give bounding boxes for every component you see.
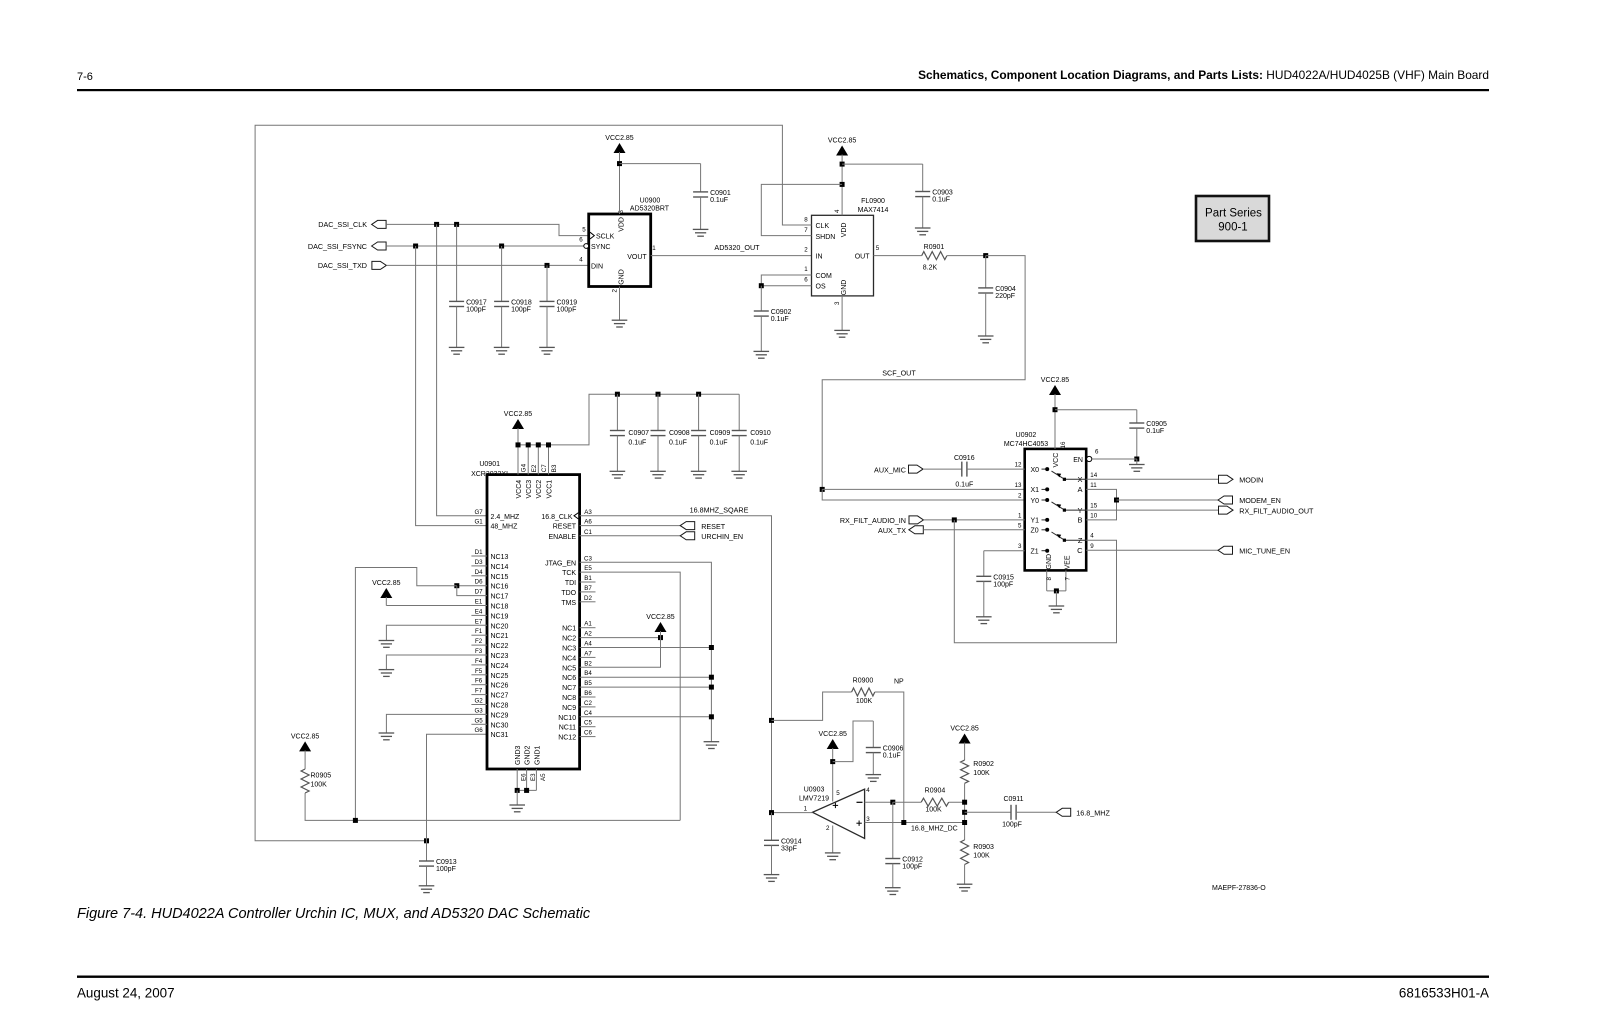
svg-text:VCC2.85: VCC2.85 (504, 411, 533, 418)
node junction DAC_SSI_CLK / G7 drop (434, 222, 439, 227)
svg-text:C3: C3 (584, 555, 592, 562)
node junction C0913 (424, 838, 429, 843)
svg-text:100K: 100K (973, 853, 990, 860)
svg-text:C: C (1077, 546, 1083, 555)
svg-text:C0906: C0906 (883, 746, 904, 753)
resistor R0904 100K (921, 798, 949, 806)
node junction U0902 VCC / C0905 (1053, 407, 1058, 412)
svg-text:B1: B1 (584, 575, 592, 582)
svg-text:F3: F3 (475, 648, 483, 655)
node junction C0905 / EN / ground (1134, 457, 1139, 462)
ground C0915 (976, 617, 992, 624)
capacitor C0905 (1136, 410, 1138, 423)
U0903 pin 4 minus input (865, 801, 893, 803)
svg-text:NC4: NC4 (562, 655, 576, 662)
svg-text:C0909: C0909 (710, 430, 731, 437)
svg-text:VCC2.85: VCC2.85 (372, 580, 401, 587)
svg-text:6: 6 (579, 237, 583, 244)
svg-text:GND: GND (1046, 554, 1053, 570)
svg-text:3: 3 (1018, 543, 1022, 550)
svg-text:MC74HC4053: MC74HC4053 (1004, 441, 1048, 448)
wire RX_FILT_AUDIO_IN to Y1 (924, 519, 1025, 521)
svg-text:ENABLE: ENABLE (548, 534, 576, 541)
svg-text:C7: C7 (541, 464, 548, 473)
net URCHIN_EN flag (580, 535, 681, 537)
svg-text:X0: X0 (1031, 467, 1040, 474)
wire NC7 to JTAG net (580, 686, 712, 688)
svg-text:220pF: 220pF (995, 293, 1015, 300)
svg-text:5: 5 (836, 790, 840, 797)
ground R0903 (957, 884, 973, 891)
svg-text:D3: D3 (475, 559, 483, 566)
svg-text:X1: X1 (1031, 487, 1040, 494)
svg-text:NC31: NC31 (491, 732, 509, 739)
svg-text:5: 5 (582, 226, 586, 233)
svg-text:C0913: C0913 (436, 859, 457, 866)
svg-text:A4: A4 (584, 641, 592, 648)
U0902 pin 6 EN bubble (1087, 456, 1092, 461)
node junction output / C0914 (769, 810, 774, 815)
wire AD5320_OUT net (651, 255, 812, 257)
node junction COM-OS / C0902 (759, 283, 764, 288)
wire Z1 to C0915 (984, 550, 1025, 552)
svg-text:A6: A6 (584, 519, 592, 526)
svg-text:NC17: NC17 (491, 594, 509, 601)
svg-text:R0904: R0904 (925, 788, 946, 795)
svg-text:F4: F4 (475, 658, 483, 665)
svg-text:AD5320_OUT: AD5320_OUT (714, 243, 760, 252)
node junction minus input / C0912 (890, 800, 895, 805)
svg-text:R0905: R0905 (311, 773, 332, 780)
svg-text:NC22: NC22 (491, 643, 509, 650)
svg-text:DIN: DIN (591, 263, 603, 270)
svg-text:RESET: RESET (553, 524, 577, 531)
net 16.8_MHZ flag (1056, 808, 1071, 816)
ground C0902 (754, 351, 770, 358)
svg-text:C0914: C0914 (781, 839, 802, 846)
svg-text:C0915: C0915 (993, 575, 1014, 582)
svg-text:C0917: C0917 (466, 300, 487, 307)
svg-text:R0902: R0902 (973, 761, 994, 768)
svg-text:NC8: NC8 (562, 695, 576, 702)
svg-text:8: 8 (1046, 577, 1053, 581)
svg-text:0.1uF: 0.1uF (883, 753, 901, 760)
svg-text:G7: G7 (474, 509, 483, 516)
svg-text:VCC2.85: VCC2.85 (828, 138, 857, 145)
svg-text:B4: B4 (584, 670, 592, 677)
wire C0913 junction up to U0901 G6 (427, 734, 488, 841)
resistor R0903 100K (961, 840, 969, 865)
svg-text:F7: F7 (475, 688, 483, 695)
wire SCF_OUT to U0902 Y0 pin 2 (822, 489, 1024, 500)
svg-text:F5: F5 (475, 668, 483, 675)
ground C0912 (885, 888, 901, 895)
svg-text:NC10: NC10 (558, 715, 576, 722)
wire COM OS tie (761, 275, 811, 286)
svg-text:NC30: NC30 (491, 722, 509, 729)
svg-text:LMV7219: LMV7219 (799, 795, 829, 802)
svg-text:RX_FILT_AUDIO_OUT: RX_FILT_AUDIO_OUT (1239, 506, 1314, 515)
svg-text:C0904: C0904 (995, 286, 1016, 293)
svg-text:6816533H01-A: 6816533H01-A (1399, 986, 1489, 1001)
svg-text:NC28: NC28 (491, 703, 509, 710)
wire supply junction to C0906 (833, 721, 874, 762)
svg-text:B5: B5 (584, 680, 592, 687)
wire SHDN tie to VDD (761, 184, 842, 235)
svg-text:C0905: C0905 (1146, 421, 1167, 428)
svg-text:AUX_MIC: AUX_MIC (874, 465, 906, 474)
svg-text:C4: C4 (584, 710, 592, 717)
svg-text:C2: C2 (584, 700, 592, 707)
svg-text:NC6: NC6 (562, 675, 576, 682)
svg-text:VCC: VCC (1053, 453, 1060, 468)
svg-text:0.1uF: 0.1uF (710, 197, 728, 204)
svg-text:16.8MHZ_SQARE: 16.8MHZ_SQARE (690, 505, 749, 514)
svg-text:R0901: R0901 (924, 244, 945, 251)
wire NC10 to JTAG net (580, 716, 712, 718)
svg-text:16.8_CLK: 16.8_CLK (541, 514, 572, 521)
svg-text:GND2: GND2 (525, 745, 532, 765)
svg-text:NC29: NC29 (491, 712, 509, 719)
svg-text:B6: B6 (584, 690, 592, 697)
svg-text:0.1uF: 0.1uF (750, 440, 768, 447)
wire feedback to R0900 (772, 692, 852, 720)
svg-text:C0916: C0916 (954, 455, 975, 462)
node junction plus input / feedback (901, 820, 906, 825)
svg-text:August 24, 2007: August 24, 2007 (77, 986, 175, 1001)
svg-text:NC20: NC20 (491, 623, 509, 630)
svg-text:R0903: R0903 (973, 844, 994, 851)
svg-text:A5: A5 (540, 773, 547, 781)
cpld U0901 XCR3032XL box (487, 475, 580, 769)
capacitor C0912 100pF (892, 802, 894, 858)
node junction supply / C0906 (830, 759, 835, 764)
svg-text:2: 2 (804, 247, 808, 254)
svg-text:VCC2.85: VCC2.85 (818, 731, 847, 738)
wire AUX_MIC to C0916 (923, 468, 962, 470)
svg-text:A3: A3 (584, 509, 592, 516)
wire DAC_SSI_TXD to DIN (386, 264, 588, 266)
capacitor C0915 100pF (983, 551, 985, 577)
wire DAC_SSI_CLK to SCLK (386, 224, 589, 235)
node junction VDD / C0901 (617, 161, 622, 166)
wire NC5 to VCC net (580, 638, 661, 668)
svg-text:TCK: TCK (562, 570, 576, 577)
svg-text:4: 4 (1090, 533, 1094, 540)
svg-text:2: 2 (826, 825, 830, 832)
svg-text:900-1: 900-1 (1218, 222, 1247, 234)
svg-text:A1: A1 (584, 621, 592, 628)
svg-text:AUX_TX: AUX_TX (878, 526, 906, 535)
svg-text:1: 1 (804, 806, 808, 813)
capacitor C0918 (501, 246, 503, 301)
ground FL0900 (834, 330, 850, 337)
ground C0913 (419, 886, 435, 893)
capacitor C0903 (922, 164, 924, 191)
ground C0918 (494, 347, 510, 354)
net MIC_TUNE_EN flag (1086, 549, 1218, 551)
svg-text:Schematics, Component Location: Schematics, Component Location Diagrams,… (918, 68, 1489, 82)
svg-text:D1: D1 (475, 549, 483, 556)
node junction feedback tap (769, 718, 774, 723)
svg-text:NC25: NC25 (491, 673, 509, 680)
ground E7 (379, 641, 395, 648)
wire SCF_OUT net (822, 256, 1025, 490)
svg-text:VCC4: VCC4 (516, 480, 523, 499)
svg-text:G6: G6 (474, 727, 483, 734)
net MODIN flag (1086, 478, 1218, 480)
svg-text:VCC3: VCC3 (526, 480, 533, 499)
svg-text:Y0: Y0 (1031, 498, 1040, 505)
resistor R0901 8.2K (922, 252, 947, 260)
capacitor C0919 (546, 265, 548, 301)
svg-text:VCC2.85: VCC2.85 (1041, 377, 1070, 384)
svg-text:VEE: VEE (1064, 555, 1071, 569)
wire R0901 to junction (947, 255, 986, 257)
svg-text:6: 6 (1095, 449, 1099, 456)
svg-text:D7: D7 (475, 589, 483, 596)
node junction MODEM_EN select (1114, 498, 1119, 503)
part series 900-1 box (1196, 196, 1269, 241)
wire A B select to MODEM_EN (1086, 489, 1116, 520)
ground C0903 (915, 228, 931, 235)
svg-text:100pF: 100pF (436, 866, 456, 873)
wire JTAG_EN net C3 (580, 562, 712, 741)
svg-text:GND3: GND3 (515, 745, 522, 765)
svg-text:16.8_MHZ: 16.8_MHZ (1076, 809, 1110, 818)
svg-text:RX_FILT_AUDIO_IN: RX_FILT_AUDIO_IN (840, 516, 906, 525)
svg-text:C0912: C0912 (902, 857, 923, 864)
svg-text:B2: B2 (584, 660, 592, 667)
svg-text:A: A (1077, 485, 1082, 494)
svg-text:GND1: GND1 (534, 745, 541, 765)
svg-text:C0902: C0902 (771, 309, 792, 316)
ground C0917 (449, 347, 465, 354)
svg-text:SYNC: SYNC (591, 244, 610, 251)
svg-text:NC15: NC15 (491, 574, 509, 581)
net RESET flag (580, 525, 681, 527)
svg-text:4: 4 (579, 256, 583, 263)
svg-text:E2: E2 (531, 464, 538, 472)
wire NC2 to VCC2.85 (580, 637, 661, 639)
wire SCF_OUT to U0902 X1 pin 13 (822, 488, 1024, 490)
svg-text:FL0900: FL0900 (861, 198, 885, 205)
svg-text:NC5: NC5 (562, 665, 576, 672)
footer rule (77, 976, 1489, 978)
svg-text:D2: D2 (584, 595, 592, 602)
svg-text:E1: E1 (475, 599, 483, 606)
ground C0906 (866, 775, 882, 782)
svg-text:NC14: NC14 (491, 564, 509, 571)
svg-text:U0900: U0900 (640, 198, 661, 205)
svg-text:MODIN: MODIN (1239, 475, 1263, 484)
wire NC6 to JTAG net (580, 676, 712, 678)
node junction VDD / C0903 wire (840, 162, 845, 167)
U0902 switch wipers (1066, 478, 1086, 480)
svg-text:XCR3032XL: XCR3032XL (471, 471, 510, 478)
svg-text:0.1uF: 0.1uF (955, 482, 973, 489)
svg-text:JTAG_EN: JTAG_EN (545, 560, 576, 567)
svg-text:MIC_TUNE_EN: MIC_TUNE_EN (1239, 547, 1290, 556)
net RX_FILT_AUDIO_OUT flag (1086, 509, 1218, 511)
wire VDD junction to C0903 (842, 163, 923, 165)
svg-text:C0908: C0908 (669, 430, 690, 437)
ground C0905 EN (1136, 459, 1138, 465)
svg-text:COM: COM (816, 273, 833, 280)
svg-text:G1: G1 (474, 519, 483, 526)
svg-text:C5: C5 (584, 720, 592, 727)
svg-text:VCC2.85: VCC2.85 (605, 135, 634, 142)
svg-text:100pF: 100pF (557, 307, 577, 314)
svg-text:C0911: C0911 (1003, 796, 1023, 803)
node junction VDD / SHDN wire (840, 182, 845, 187)
wire D6 D7 to pull-up net (457, 585, 487, 587)
svg-text:C0910: C0910 (750, 430, 771, 437)
wire NC3 to JTAG net (580, 647, 712, 649)
svg-text:0.1uF: 0.1uF (710, 440, 728, 447)
U0903 pin 2 to ground (832, 826, 834, 853)
resistor R0900 100K NP (852, 688, 875, 696)
capacitor C0917 (456, 224, 458, 301)
ground U0902 (1049, 606, 1065, 613)
comparator U0903 LMV7219 triangle (813, 789, 865, 838)
svg-text:4: 4 (834, 209, 841, 213)
svg-text:SCF_OUT: SCF_OUT (882, 368, 916, 377)
svg-text:1: 1 (1018, 512, 1022, 519)
svg-text:F1: F1 (475, 628, 483, 635)
svg-text:7: 7 (804, 227, 808, 234)
wire CLK from frame (255, 125, 811, 841)
svg-text:100K: 100K (973, 770, 990, 777)
net MODEM_EN flag (1117, 499, 1219, 501)
svg-text:TMS: TMS (561, 600, 576, 607)
wire drop to U0901 G7 (437, 224, 487, 515)
svg-text:B: B (1077, 516, 1082, 525)
mux U0902 MC74HC4053 box (1025, 449, 1087, 571)
svg-text:5: 5 (876, 245, 880, 252)
svg-text:SHDN: SHDN (816, 234, 836, 241)
svg-text:VCC1: VCC1 (546, 480, 553, 499)
svg-text:GND: GND (841, 280, 848, 296)
svg-text:C6: C6 (584, 730, 592, 737)
svg-text:U0901: U0901 (479, 461, 500, 468)
wire TCK E5 to pull-up net (580, 572, 681, 820)
svg-text:VCC2.85: VCC2.85 (950, 726, 979, 733)
svg-text:15: 15 (1090, 503, 1097, 510)
svg-text:GND: GND (618, 269, 625, 285)
svg-text:2: 2 (1018, 493, 1022, 500)
ground U0900 (612, 320, 628, 327)
svg-text:TDO: TDO (561, 590, 576, 597)
wire VDD junction to C0901 (620, 163, 701, 165)
svg-text:EN: EN (1073, 457, 1083, 464)
node junction RX_FILT_AUDIO_IN / Z return (952, 517, 957, 522)
svg-text:DAC_SSI_CLK: DAC_SSI_CLK (318, 220, 367, 229)
svg-text:VOUT: VOUT (627, 254, 647, 261)
svg-text:0.1uF: 0.1uF (669, 440, 687, 447)
svg-text:C0918: C0918 (511, 300, 532, 307)
node junction DAC_SSI_FSYNC / G1 drop (413, 244, 418, 249)
svg-text:E5: E5 (584, 565, 592, 572)
svg-text:VCC2.85: VCC2.85 (646, 614, 675, 621)
svg-text:URCHIN_EN: URCHIN_EN (701, 532, 743, 541)
svg-text:VCC2: VCC2 (536, 480, 543, 499)
svg-text:0.1uF: 0.1uF (932, 197, 950, 204)
svg-text:NC12: NC12 (558, 735, 576, 742)
wire OUT to R0901 (874, 255, 922, 257)
wire divider to C0911 (965, 811, 1011, 813)
svg-text:A2: A2 (584, 631, 592, 638)
svg-text:100K: 100K (925, 807, 942, 814)
svg-text:E4: E4 (475, 608, 483, 615)
svg-text:NC2: NC2 (562, 636, 576, 643)
svg-text:14: 14 (1090, 472, 1097, 479)
wire AUX_TX to Z0 (923, 529, 1024, 531)
U0901 GND pins (516, 769, 518, 790)
svg-text:12: 12 (1015, 462, 1022, 469)
svg-text:100pF: 100pF (511, 307, 531, 314)
svg-text:2: 2 (612, 289, 619, 293)
ground C0919 (539, 347, 555, 354)
wire R0904 to divider (949, 801, 965, 803)
svg-text:R0900: R0900 (853, 678, 874, 685)
svg-text:8.2K: 8.2K (923, 265, 938, 272)
svg-text:MAX7414: MAX7414 (858, 207, 889, 214)
svg-text:IN: IN (816, 254, 823, 261)
wire drop to U0901 G1 (416, 246, 487, 526)
decoupling caps C0907-C0910 on VCC rail (615, 392, 620, 397)
node junction DAC_SSI_FSYNC / C0918 (499, 244, 504, 249)
svg-text:D6: D6 (475, 579, 483, 586)
svg-text:Z0: Z0 (1031, 528, 1039, 535)
svg-text:NC26: NC26 (491, 683, 509, 690)
capacitor C0916 0.1uF (962, 462, 967, 477)
svg-text:100pF: 100pF (466, 307, 486, 314)
svg-text:C0919: C0919 (557, 300, 578, 307)
svg-text:G5: G5 (474, 717, 483, 724)
svg-text:1: 1 (804, 266, 808, 273)
svg-text:MAEPF-27836-O: MAEPF-27836-O (1212, 885, 1266, 892)
svg-text:NC23: NC23 (491, 653, 509, 660)
svg-text:8: 8 (804, 217, 808, 224)
wire VCC junction to C0905 (1055, 409, 1137, 411)
ground G3 (379, 733, 395, 740)
svg-text:2.4_MHZ: 2.4_MHZ (491, 514, 521, 521)
svg-text:100pF: 100pF (993, 582, 1013, 589)
svg-text:6: 6 (804, 277, 808, 284)
svg-text:48_MHZ: 48_MHZ (491, 524, 519, 531)
svg-text:C0907: C0907 (628, 430, 649, 437)
svg-text:13: 13 (1015, 482, 1022, 489)
svg-text:Figure 7-4. HUD4022A Controlle: Figure 7-4. HUD4022A Controller Urchin I… (77, 906, 591, 922)
svg-text:9: 9 (1090, 543, 1094, 550)
op IC U0900 AD5320BRT box (589, 214, 651, 287)
wire minus input to R0904 (893, 801, 921, 803)
ground U0903 pin 2 (825, 853, 841, 860)
svg-text:NC21: NC21 (491, 633, 509, 640)
node junction SCF_OUT / X1 (820, 487, 825, 492)
svg-text:NP: NP (894, 679, 904, 686)
svg-text:NC7: NC7 (562, 685, 576, 692)
capacitor C0914 33pF (771, 813, 773, 841)
node junction divider / R0904 (962, 800, 967, 805)
svg-text:U0902: U0902 (1016, 432, 1037, 439)
wire Z select loop (954, 520, 1116, 643)
capacitor C0902 (760, 286, 762, 311)
capacitor C0906 0.1uF (872, 721, 874, 748)
svg-text:F6: F6 (475, 678, 483, 685)
svg-text:4: 4 (866, 787, 870, 794)
